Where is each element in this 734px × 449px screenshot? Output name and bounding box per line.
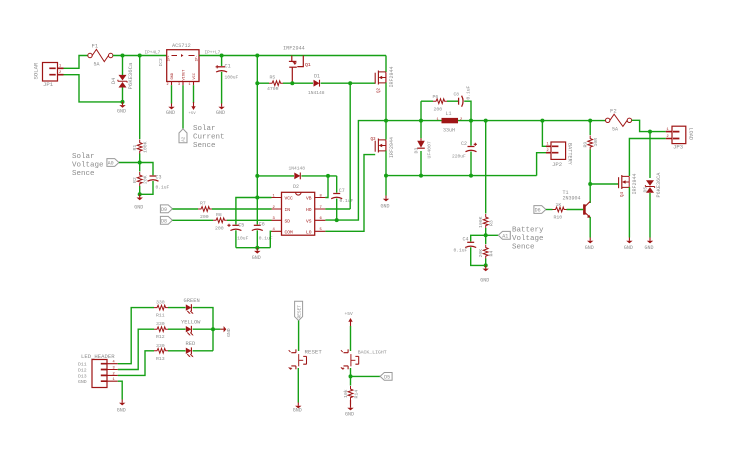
transistor Q3 IRF2944 low side <box>371 137 395 158</box>
diode D3 UF4007 <box>413 138 432 175</box>
wire D2 cathode to C7 <box>301 175 336 177</box>
node junction D4 bottom <box>121 100 125 104</box>
svg-text:IRF2944: IRF2944 <box>389 137 395 158</box>
svg-text:R11: R11 <box>156 313 165 319</box>
svg-text:R5: R5 <box>270 75 276 81</box>
resistor R5 470R <box>267 75 283 93</box>
wire D8 to R8 <box>172 219 213 221</box>
ground reset <box>295 403 301 409</box>
svg-text:1: 1 <box>547 143 549 147</box>
svg-text:HO: HO <box>306 207 312 213</box>
power +5V below IC2 <box>191 102 195 110</box>
svg-text:10k: 10k <box>343 389 349 398</box>
ground header <box>119 400 125 406</box>
svg-text:100K: 100K <box>478 216 484 228</box>
resistor R14 10k pulldown <box>343 386 360 400</box>
svg-text:1: 1 <box>667 128 669 132</box>
svg-text:33uH: 33uH <box>443 128 455 134</box>
wire VCC net vertical from solar rail <box>256 56 258 176</box>
svg-text:D8: D8 <box>161 218 167 224</box>
svg-text:C5: C5 <box>238 223 244 229</box>
wire header pin3 to R12 <box>118 329 154 369</box>
wire D5 vertical <box>649 132 651 178</box>
svg-text:BACK_LIGHT: BACK_LIGHT <box>358 350 387 356</box>
wire LED2 to gnd <box>193 328 221 330</box>
node junction divider bottom <box>138 192 142 196</box>
svg-text:D6: D6 <box>535 208 541 214</box>
wire Q4 source to gnd <box>628 187 630 238</box>
svg-text:GND: GND <box>480 278 489 284</box>
svg-text:Battery: Battery <box>512 227 544 235</box>
svg-text:Voltage: Voltage <box>512 235 544 243</box>
svg-text:Q4: Q4 <box>621 191 625 197</box>
svg-text:D2: D2 <box>293 184 299 190</box>
svg-text:RESET: RESET <box>297 305 303 319</box>
wire VB riser <box>325 176 328 198</box>
wire COM to cap rail <box>270 231 271 247</box>
diode D5 P6KE36CA <box>642 172 662 238</box>
ground LED rail rotated <box>220 326 226 332</box>
svg-text:C2: C2 <box>461 141 467 147</box>
node junction divider <box>138 161 142 165</box>
node junction R5 tap <box>255 81 259 85</box>
svg-text:2: 2 <box>59 71 61 75</box>
svg-text:YELLOW: YELLOW <box>181 320 201 326</box>
wire D2/VCC corner to diode <box>257 175 294 177</box>
wire header pin4 to R11 <box>118 308 154 364</box>
node D5 flag <box>380 373 392 381</box>
svg-text:5A: 5A <box>612 127 618 133</box>
svg-text:LO: LO <box>306 229 312 235</box>
resistor R11 330 <box>154 300 168 319</box>
svg-text:1K: 1K <box>556 202 562 208</box>
wire D1 to Q2 gate <box>321 82 376 84</box>
resistor R3 100K <box>478 214 495 228</box>
LED yellow <box>181 320 201 336</box>
capacitor C5 10uF <box>227 223 248 248</box>
svg-text:A0: A0 <box>108 161 114 167</box>
wire IC2 vcc pin <box>193 85 195 103</box>
svg-text:JP3: JP3 <box>673 144 683 151</box>
wire VS to switch node <box>325 121 386 221</box>
svg-text:0.1uF: 0.1uF <box>454 248 468 254</box>
svg-text:10R: 10R <box>593 138 599 147</box>
capacitor C4 0.1uF sense <box>454 235 486 265</box>
svg-text:GND: GND <box>216 110 225 116</box>
resistor R4 20K <box>478 245 495 266</box>
node junction switch rail <box>384 119 388 123</box>
wire power ground rail <box>386 175 537 177</box>
svg-text:GND: GND <box>171 73 175 79</box>
wire JP3 pin2 to Q4 drain <box>629 139 665 177</box>
svg-text:C4: C4 <box>463 236 469 242</box>
wire IC2 out rail to Q2 <box>199 55 386 57</box>
svg-text:BATTERY: BATTERY <box>567 143 573 166</box>
svg-text:IN: IN <box>285 207 291 213</box>
wire to R5 <box>257 82 269 84</box>
wire IC2 viout to flag <box>182 85 184 128</box>
node RESET flag <box>295 301 303 320</box>
wire D4 top <box>122 56 124 73</box>
svg-text:SD: SD <box>285 218 291 224</box>
svg-text:GND: GND <box>345 412 354 418</box>
resistor R13 330 <box>154 343 168 362</box>
svg-text:R13: R13 <box>156 356 165 362</box>
capacitor C3 0.1uF <box>140 163 170 195</box>
wire to Q4 gate <box>590 183 619 185</box>
svg-text:D4: D4 <box>111 78 117 84</box>
svg-text:GND: GND <box>226 328 232 337</box>
svg-text:R7: R7 <box>200 201 206 207</box>
wire LED1 to cathode rail <box>193 308 213 351</box>
svg-text:0.1uF: 0.1uF <box>156 185 170 191</box>
capacitor C8 0.1uF snubber <box>454 85 472 120</box>
svg-text:200: 200 <box>215 225 224 231</box>
wire R14 to gnd <box>350 400 352 405</box>
svg-text:A2: A2 <box>183 136 187 142</box>
switch S1 RESET <box>289 349 323 370</box>
svg-text:100uF: 100uF <box>225 75 239 81</box>
svg-text:Q1: Q1 <box>305 62 311 68</box>
wire P6 to C8 <box>447 100 458 102</box>
svg-text:1N4148: 1N4148 <box>289 166 306 172</box>
svg-text:Solar: Solar <box>193 125 216 133</box>
wire R8 to SD <box>227 219 272 221</box>
svg-text:VIOUT: VIOUT <box>183 69 187 81</box>
wire R1 to node <box>139 154 141 163</box>
connector JP2 BATTERY <box>546 142 573 168</box>
svg-text:GND: GND <box>293 408 302 414</box>
capacitor C2 220uF output <box>452 121 477 176</box>
svg-text:330: 330 <box>156 300 165 306</box>
svg-text:10uF: 10uF <box>237 236 248 242</box>
wire VCC pin to cap rail <box>236 198 272 225</box>
ground IC2 <box>168 104 174 110</box>
wire fuse to IC2 <box>113 55 167 57</box>
svg-text:D5: D5 <box>642 187 648 193</box>
diode D1 1N4148 <box>308 74 325 97</box>
wire header pin2 to R13 <box>118 351 154 376</box>
capacitor C1 100uF <box>216 56 239 104</box>
svg-text:C8: C8 <box>454 92 460 98</box>
svg-text:200: 200 <box>200 214 209 220</box>
svg-text:0.1uF: 0.1uF <box>465 85 471 99</box>
svg-text:5A: 5A <box>94 62 100 68</box>
node D8 flag <box>160 216 172 224</box>
svg-text:2: 2 <box>113 372 115 376</box>
resistor R12 330 <box>154 321 168 340</box>
svg-text:R1: R1 <box>132 145 138 151</box>
resistor R2 20K <box>132 163 148 195</box>
wire header pin1 to gnd <box>118 381 122 399</box>
wire R13 to LED3 <box>168 350 186 352</box>
svg-text:R8: R8 <box>216 212 222 218</box>
wire R9 to collector <box>589 150 591 204</box>
svg-text:RESET: RESET <box>305 349 323 356</box>
node junction C1 <box>220 54 224 58</box>
svg-text:C7: C7 <box>339 188 345 194</box>
svg-text:Sence: Sence <box>512 244 535 252</box>
resistor R7 200 <box>198 201 212 221</box>
wire flag to reset switch <box>298 321 300 351</box>
wire R9 feed <box>589 121 591 135</box>
transistor Q1 IRF2944 high-side aux <box>283 46 311 84</box>
svg-text:R2: R2 <box>132 177 138 183</box>
transistor Q2 IRF2944 <box>375 56 395 94</box>
ground below D4 <box>119 102 125 108</box>
wire node to D5 flag <box>351 375 381 377</box>
ground battery sense <box>483 265 489 271</box>
svg-text:330: 330 <box>156 343 165 349</box>
wire D9 to R7 <box>172 208 198 210</box>
svg-text:C3: C3 <box>156 175 162 181</box>
diode D2 1N4148 bootstrap <box>289 166 306 191</box>
svg-text:D13: D13 <box>78 373 87 379</box>
wire R7 to IN <box>212 208 272 210</box>
svg-text:GND: GND <box>166 110 175 116</box>
wire backlight to node <box>350 368 352 386</box>
svg-text:Solar: Solar <box>72 153 95 161</box>
LED green <box>184 298 200 314</box>
resistor R9 10R <box>582 136 599 150</box>
svg-text:+5V: +5V <box>345 311 354 317</box>
capacitor C6 0.1uF <box>252 176 273 248</box>
svg-text:A1: A1 <box>502 233 508 239</box>
svg-text:Sence: Sence <box>193 142 216 150</box>
wire JP2 feed <box>542 121 546 147</box>
fuse F2 5A <box>606 108 632 133</box>
diode D4 P6KE36Ca <box>111 62 134 102</box>
svg-text:R12: R12 <box>156 334 165 340</box>
ground R14 <box>347 405 353 411</box>
svg-text:VS: VS <box>306 218 312 224</box>
wire JP2 pin2 to gnd rail <box>537 153 546 176</box>
svg-text:GND: GND <box>645 245 654 251</box>
wire solar rail down to R1 <box>139 56 141 140</box>
wire flag A0 to divider <box>119 162 140 164</box>
svg-text:RED: RED <box>186 341 196 347</box>
svg-text:7: 7 <box>320 206 322 210</box>
wire JP1 pin2 to ground rail <box>64 75 123 102</box>
svg-text:IP-: IP- <box>195 55 199 61</box>
svg-text:470R: 470R <box>267 86 279 92</box>
op-amp U1 IR2104 gate driver <box>272 192 326 235</box>
svg-text:+5V: +5V <box>189 112 197 116</box>
svg-text:UF4007: UF4007 <box>427 141 433 158</box>
connector JP3 LOAD <box>666 126 694 150</box>
transistor T1 2N3904 <box>563 190 591 218</box>
svg-text:C1: C1 <box>225 64 231 70</box>
wire battery rail L1 <box>386 120 442 122</box>
svg-text:VCC: VCC <box>193 73 197 79</box>
svg-text:IRF2944: IRF2944 <box>632 173 638 194</box>
switch S2 BACK_LIGHT <box>341 349 387 369</box>
svg-text:GND: GND <box>381 203 390 209</box>
ground D5 <box>647 238 653 244</box>
svg-text:GND: GND <box>134 205 143 211</box>
wire LO to Q3 gate <box>325 155 375 232</box>
svg-text:D11: D11 <box>78 362 87 368</box>
svg-text:20K: 20K <box>478 249 484 258</box>
transistor Q4 IRF2944 load switch <box>619 173 639 197</box>
svg-text:R10: R10 <box>554 215 563 221</box>
svg-text:Voltage: Voltage <box>72 162 104 170</box>
wire battery sense drop <box>485 121 487 214</box>
svg-text:VCC: VCC <box>285 196 294 202</box>
node junction R1/rail <box>138 54 142 58</box>
svg-text:GND: GND <box>252 255 261 261</box>
node D6 flag <box>534 206 546 214</box>
svg-text:200: 200 <box>434 106 443 112</box>
wire R5 to D1 <box>283 82 313 84</box>
wire D3 freewheel vertical <box>420 101 422 138</box>
svg-text:D3: D3 <box>413 148 419 154</box>
wire JP1 pin1 to fuse rail <box>64 56 88 69</box>
ground power stage <box>385 176 387 196</box>
connector JP1 SOLAR <box>33 62 64 88</box>
connector JP4 LED_HEADER <box>78 353 118 388</box>
node D9 flag <box>160 205 172 213</box>
wire F2 to JP3 <box>632 120 666 131</box>
svg-text:IP+: IP+ <box>168 55 172 61</box>
wire emitter to gnd <box>589 217 591 238</box>
wire LED3 to cathode rail <box>193 350 213 352</box>
svg-text:R9: R9 <box>582 142 588 148</box>
svg-text:L1: L1 <box>446 111 452 117</box>
svg-text:VB: VB <box>306 196 312 202</box>
svg-text:JP1: JP1 <box>43 81 54 88</box>
wire cap ground rail <box>236 247 270 249</box>
svg-text:3: 3 <box>113 367 115 371</box>
wire +5V to backlight switch <box>350 326 352 351</box>
wire R10 to base <box>567 209 584 211</box>
svg-text:F2: F2 <box>610 108 617 115</box>
wire snubber top <box>421 100 433 102</box>
svg-text:Q2: Q2 <box>378 87 382 93</box>
svg-text:Sence: Sence <box>72 170 95 178</box>
svg-text:IRF2944: IRF2944 <box>389 66 395 87</box>
wire R12 to LED2 <box>168 328 186 330</box>
op-amp U IC2 ACS712 current sensor <box>158 43 199 87</box>
wire IC2 gnd pin <box>171 85 173 103</box>
svg-text:1: 1 <box>437 118 439 122</box>
resistor R10 1K <box>553 202 567 221</box>
wire reset switch to gnd <box>297 368 299 403</box>
resistor P6 200 snubber <box>433 94 448 112</box>
ground driver caps <box>254 248 260 254</box>
wire HO to gate net <box>325 83 350 209</box>
fuse F1 5A <box>88 43 113 68</box>
svg-text:4: 4 <box>113 361 115 365</box>
svg-text:2: 2 <box>167 83 169 87</box>
node A2 flag <box>179 129 187 143</box>
ground T1 <box>587 238 593 244</box>
svg-text:F1: F1 <box>92 43 99 50</box>
svg-text:2: 2 <box>667 135 669 139</box>
svg-text:GND: GND <box>117 109 126 115</box>
wire Q3 source to gnd rail <box>385 151 387 176</box>
resistor R1 100K <box>132 140 148 154</box>
svg-text:IP+4L7: IP+4L7 <box>145 51 161 56</box>
ground Q4 <box>626 238 632 244</box>
svg-text:IRF2944: IRF2944 <box>283 46 305 52</box>
svg-text:JP2: JP2 <box>552 161 562 168</box>
svg-text:Current: Current <box>193 134 225 142</box>
svg-text:R14: R14 <box>353 390 359 399</box>
svg-text:20K: 20K <box>143 175 149 184</box>
wire Q2 source switch node <box>385 83 387 140</box>
svg-text:R3: R3 <box>489 220 495 226</box>
LED red <box>186 341 196 357</box>
svg-text:LOAD: LOAD <box>688 128 694 140</box>
svg-text:D12: D12 <box>78 368 87 374</box>
svg-text:P6KE36CA: P6KE36CA <box>656 172 662 198</box>
svg-text:R4: R4 <box>489 251 495 257</box>
node A0 flag <box>107 159 119 167</box>
wire R11 to LED1 <box>168 307 186 309</box>
svg-text:1N4148: 1N4148 <box>308 90 325 96</box>
svg-text:D5: D5 <box>384 375 390 381</box>
svg-text:D1: D1 <box>314 74 320 80</box>
wire D6 to R10 <box>546 209 553 211</box>
svg-text:ACS712: ACS712 <box>172 43 191 49</box>
svg-text:100K: 100K <box>143 141 149 153</box>
ground C1 <box>218 104 224 110</box>
resistor R8 200 <box>213 212 227 232</box>
svg-text:220uF: 220uF <box>452 153 466 159</box>
svg-text:C6: C6 <box>259 221 265 227</box>
svg-text:GND: GND <box>117 408 126 414</box>
svg-text:D9: D9 <box>161 207 167 213</box>
svg-text:GND: GND <box>585 245 594 251</box>
svg-text:1: 1 <box>113 378 115 382</box>
inductor L1 33uH <box>437 111 463 134</box>
svg-text:3: 3 <box>178 83 180 87</box>
node A1 flag <box>486 234 498 236</box>
wire R3 to node <box>485 228 487 244</box>
svg-text:2: 2 <box>547 149 549 153</box>
svg-text:1: 1 <box>59 65 61 69</box>
wire L1 to battery rail <box>458 120 606 122</box>
svg-text:Q3: Q3 <box>371 138 377 142</box>
svg-text:SOLAR: SOLAR <box>33 62 40 79</box>
svg-text:330: 330 <box>156 321 165 327</box>
capacitor C7 0.1uF bootstrap <box>331 176 353 220</box>
svg-text:2N3904: 2N3904 <box>563 196 581 202</box>
ground divider <box>137 194 143 200</box>
svg-text:GND: GND <box>78 379 87 385</box>
svg-text:0.1uF: 0.1uF <box>340 198 354 204</box>
node junction D4/rail <box>121 54 125 58</box>
svg-text:P6KE36Ca: P6KE36Ca <box>127 62 134 89</box>
svg-text:GREEN: GREEN <box>184 298 200 304</box>
svg-text:P6: P6 <box>433 94 439 100</box>
svg-text:GND: GND <box>624 245 633 251</box>
svg-text:IC2: IC2 <box>158 58 164 67</box>
svg-text:1: 1 <box>189 83 191 87</box>
svg-text:COM: COM <box>285 229 294 235</box>
